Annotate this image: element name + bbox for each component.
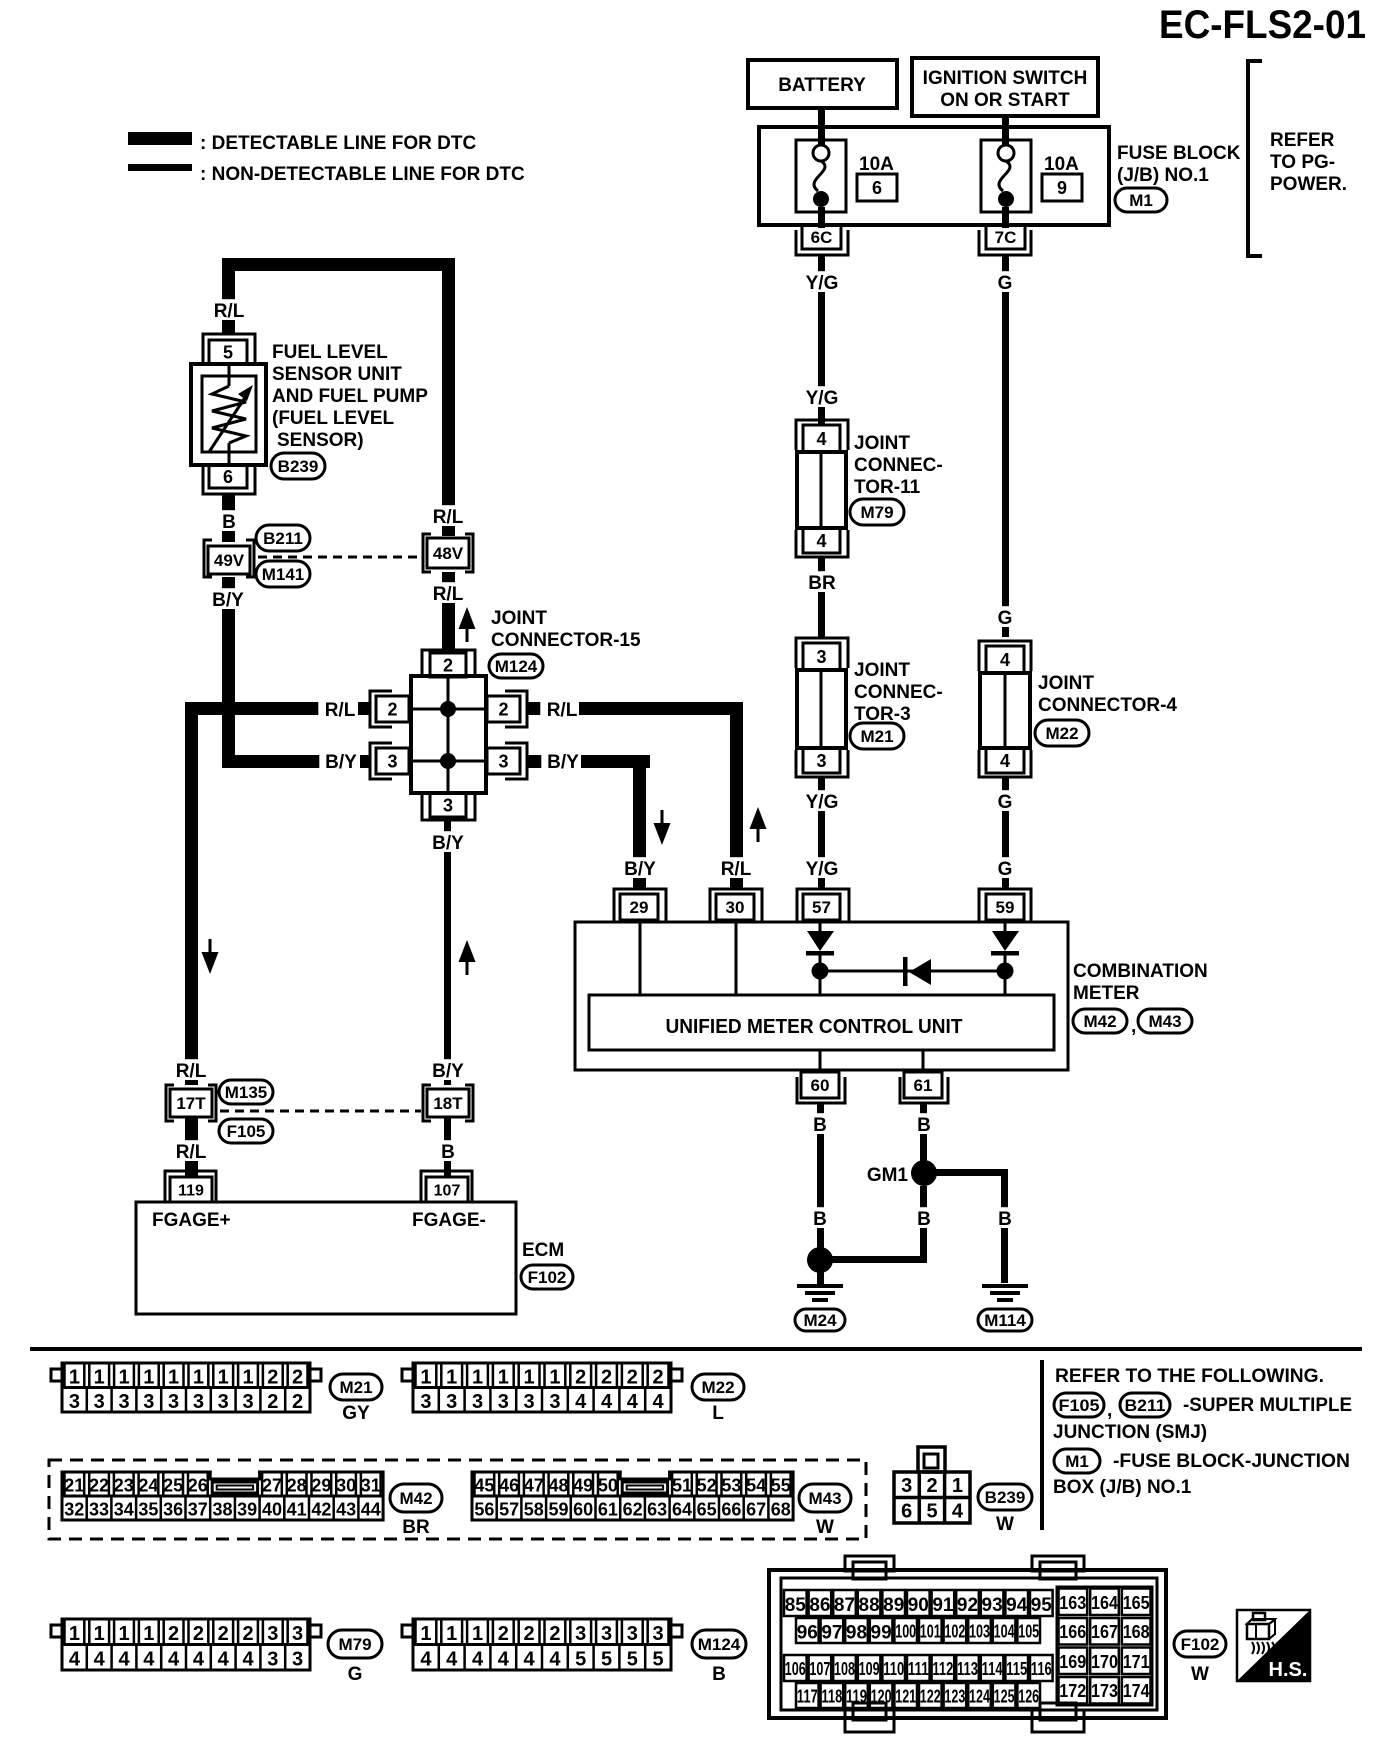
svg-text:IGNITION SWITCH: IGNITION SWITCH: [923, 68, 1088, 89]
connector M79 pinout table: [51, 1619, 321, 1671]
svg-text:57: 57: [499, 1500, 519, 1520]
svg-text:164: 164: [1091, 1593, 1118, 1613]
svg-text:41: 41: [287, 1500, 307, 1520]
svg-text:5: 5: [926, 1500, 937, 1522]
label B: [995, 1207, 1015, 1228]
svg-text:2: 2: [498, 700, 508, 720]
svg-text:33: 33: [89, 1500, 109, 1520]
svg-text:Y/G: Y/G: [806, 273, 839, 294]
terminal 60: [797, 1072, 845, 1103]
svg-text:2: 2: [218, 1623, 229, 1645]
svg-text:UNIFIED METER CONTROL UNIT: UNIFIED METER CONTROL UNIT: [666, 1016, 963, 1038]
svg-text:3: 3: [420, 1391, 431, 1413]
svg-text:3: 3: [218, 1391, 229, 1413]
svg-text:118: 118: [821, 1686, 842, 1706]
svg-text:R/L: R/L: [433, 584, 464, 605]
wire ignition to fuse 9: [1002, 116, 1009, 146]
svg-text:4: 4: [446, 1649, 458, 1671]
svg-text:R/L: R/L: [325, 700, 356, 721]
junction dot 59: [997, 963, 1014, 980]
svg-text:45: 45: [474, 1476, 494, 1496]
svg-text:2: 2: [926, 1475, 937, 1497]
svg-text:4: 4: [118, 1649, 130, 1671]
terminal 29: [614, 889, 666, 922]
svg-text:5: 5: [601, 1649, 612, 1671]
svg-text:M24: M24: [803, 1311, 837, 1330]
svg-text:M22: M22: [701, 1378, 734, 1397]
svg-text:114: 114: [982, 1659, 1003, 1679]
svg-text:2: 2: [498, 1623, 509, 1645]
right terminal 3: [487, 743, 527, 779]
F102 terminal rows 117-126: [796, 1683, 1040, 1708]
terminal 49V SMJ: [204, 540, 254, 577]
svg-text:R/L: R/L: [176, 1061, 207, 1082]
svg-text:3: 3: [242, 1391, 253, 1413]
svg-text:4: 4: [193, 1649, 205, 1671]
label R/L above terminal 30: [714, 857, 757, 878]
svg-text:53: 53: [721, 1476, 741, 1496]
svg-text:SENSOR UNIT: SENSOR UNIT: [272, 364, 402, 385]
svg-text:48V: 48V: [433, 544, 464, 563]
svg-text:B/Y: B/Y: [212, 590, 244, 611]
connector M24 oval: [795, 1309, 845, 1331]
H.S. hot-start logo: [1237, 1610, 1310, 1681]
svg-text:172: 172: [1059, 1681, 1086, 1701]
diode at 57: [806, 922, 834, 995]
ground node GM1: [911, 1160, 937, 1186]
svg-text:Y/G: Y/G: [806, 792, 839, 813]
svg-text:2: 2: [549, 1623, 560, 1645]
svg-text:42: 42: [311, 1500, 331, 1520]
connector B239 oval: [978, 1484, 1032, 1510]
svg-text:1: 1: [94, 1623, 105, 1645]
fuse 6 10A: [796, 140, 846, 212]
svg-text:96: 96: [797, 1622, 818, 1643]
terminal 59: [979, 889, 1031, 922]
svg-text:: DETECTABLE LINE FOR DTC: : DETECTABLE LINE FOR DTC: [200, 133, 476, 154]
svg-text:163: 163: [1059, 1593, 1086, 1613]
svg-text:1: 1: [446, 1623, 457, 1645]
svg-text:1: 1: [472, 1623, 483, 1645]
internal line from 29: [639, 922, 642, 995]
svg-text:6: 6: [223, 467, 233, 487]
terminal 107: [421, 1171, 472, 1202]
svg-text:167: 167: [1091, 1622, 1118, 1642]
svg-text:4: 4: [472, 1649, 484, 1671]
svg-text:4: 4: [549, 1649, 561, 1671]
wire R/L down to pin 5: [222, 258, 235, 334]
svg-text:7C: 7C: [995, 228, 1017, 247]
wire to left ground: [817, 1270, 824, 1284]
svg-text:99: 99: [871, 1622, 892, 1643]
svg-text:1: 1: [143, 1367, 154, 1389]
svg-text:30: 30: [726, 898, 745, 917]
svg-text:5: 5: [627, 1649, 638, 1671]
svg-text:4: 4: [143, 1649, 155, 1671]
terminal 57: [797, 889, 849, 922]
svg-text:106: 106: [785, 1659, 806, 1679]
wire R/L 17T to terminal 119: [185, 1117, 198, 1177]
svg-text:REFER: REFER: [1270, 130, 1335, 151]
svg-text:,: ,: [1131, 1016, 1136, 1037]
svg-text:M42: M42: [399, 1489, 432, 1508]
svg-text:GM1: GM1: [867, 1165, 909, 1186]
svg-text:3: 3: [443, 796, 453, 816]
F102 terminal rows 85-95: [784, 1590, 1053, 1616]
svg-text:10A: 10A: [859, 154, 894, 175]
svg-text:1: 1: [498, 1367, 509, 1389]
svg-text:FUEL LEVEL: FUEL LEVEL: [272, 342, 388, 363]
junction dot row 2: [440, 701, 456, 717]
svg-text:4: 4: [94, 1649, 106, 1671]
label B: [810, 1113, 830, 1134]
svg-text:89: 89: [883, 1595, 904, 1616]
svg-text:-FUSE BLOCK-JUNCTION: -FUSE BLOCK-JUNCTION: [1113, 1451, 1350, 1472]
svg-text:60: 60: [573, 1500, 593, 1520]
svg-text:1: 1: [420, 1367, 431, 1389]
dashed SMJ link 17T to 18T: [220, 1110, 421, 1113]
svg-text:1: 1: [69, 1367, 80, 1389]
svg-text:1: 1: [420, 1623, 431, 1645]
svg-text:4: 4: [816, 429, 826, 449]
wire B/Y joint connector-15 to 18T: [444, 820, 451, 1085]
wire R/L 48V to joint connector-15: [442, 572, 455, 650]
link line between diodes: [820, 970, 1005, 973]
svg-text:CONNECTOR-15: CONNECTOR-15: [491, 630, 641, 651]
connector F105 oval: [219, 1119, 273, 1143]
svg-text:4: 4: [242, 1649, 254, 1671]
connector M22 oval: [692, 1374, 744, 1400]
svg-text:3: 3: [816, 751, 826, 771]
wire B/Y 49V down: [222, 577, 235, 768]
svg-text:52: 52: [697, 1476, 717, 1496]
dashed SMJ link 49V to 48V: [258, 556, 421, 559]
svg-text:M22: M22: [1045, 724, 1078, 743]
svg-text:METER: METER: [1073, 983, 1140, 1004]
diode at 59: [991, 922, 1019, 995]
label B: [914, 1113, 934, 1134]
svg-text:ECM: ECM: [522, 1240, 564, 1261]
ground symbol M24: [797, 1284, 843, 1302]
svg-text:M141: M141: [262, 565, 305, 584]
svg-text:M43: M43: [1148, 1012, 1181, 1031]
svg-text:M21: M21: [860, 727, 893, 746]
label G: [995, 271, 1015, 292]
connector M1 oval: [1054, 1449, 1100, 1473]
svg-text:3: 3: [193, 1391, 204, 1413]
fuse 9 10A: [981, 140, 1031, 212]
svg-text:M21: M21: [339, 1378, 372, 1397]
fuel level sensor body B239: [191, 364, 266, 465]
svg-text:101: 101: [920, 1621, 941, 1641]
connector M42 oval: [390, 1484, 442, 1512]
svg-text:2: 2: [653, 1367, 664, 1389]
svg-text:4: 4: [627, 1391, 639, 1413]
joint connector-4 M22: [979, 641, 1031, 777]
svg-text:G: G: [998, 792, 1013, 813]
connector M21 oval: [330, 1374, 382, 1400]
svg-text:23: 23: [114, 1476, 134, 1496]
svg-text:61: 61: [598, 1500, 618, 1520]
svg-text:121: 121: [895, 1686, 916, 1706]
svg-text:G: G: [348, 1664, 363, 1685]
svg-text:POWER.: POWER.: [1270, 174, 1347, 195]
svg-text:ON OR START: ON OR START: [940, 90, 1070, 111]
svg-text:29: 29: [311, 1476, 331, 1496]
svg-text:FUSE BLOCK: FUSE BLOCK: [1117, 143, 1241, 164]
svg-text:Y/G: Y/G: [806, 859, 839, 880]
svg-text:BOX (J/B) NO.1: BOX (J/B) NO.1: [1053, 1477, 1192, 1498]
svg-text:117: 117: [797, 1686, 818, 1706]
wire GM1 down: [920, 1186, 927, 1260]
connector M135 oval: [219, 1080, 273, 1104]
svg-text:39: 39: [237, 1500, 257, 1520]
fuse 6 number box: [857, 174, 897, 201]
svg-text:JOINT: JOINT: [491, 608, 547, 629]
svg-text:22: 22: [89, 1476, 109, 1496]
internal line from 30: [735, 922, 738, 995]
connector M42 oval: [1073, 1009, 1127, 1033]
svg-text:3: 3: [118, 1391, 129, 1413]
svg-text:SENSOR): SENSOR): [277, 430, 364, 451]
svg-text:36: 36: [163, 1500, 183, 1520]
svg-text:65: 65: [697, 1500, 717, 1520]
svg-text:44: 44: [361, 1500, 381, 1520]
svg-text:108: 108: [834, 1659, 855, 1679]
wire B/Y left run to joint connector-15: [222, 755, 322, 768]
svg-text:2: 2: [193, 1623, 204, 1645]
svg-text:62: 62: [623, 1500, 643, 1520]
svg-text:1: 1: [118, 1623, 129, 1645]
svg-text:58: 58: [524, 1500, 544, 1520]
svg-text:1: 1: [549, 1367, 560, 1389]
svg-text:123: 123: [944, 1686, 965, 1706]
connector M114 oval: [978, 1309, 1032, 1331]
svg-text:R/L: R/L: [176, 1142, 207, 1163]
svg-text:43: 43: [336, 1500, 356, 1520]
svg-text:115: 115: [1006, 1659, 1027, 1679]
label Y/G: [800, 271, 843, 292]
svg-text:W: W: [816, 1517, 834, 1538]
connector F102 oval: [1174, 1631, 1226, 1657]
svg-text:(J/B) NO.1: (J/B) NO.1: [1117, 165, 1209, 186]
svg-text:5: 5: [575, 1649, 586, 1671]
vertical divider: [1040, 1360, 1044, 1530]
battery box: [748, 60, 897, 108]
svg-text:R/L: R/L: [721, 859, 752, 880]
connector B239 oval: [271, 453, 325, 479]
svg-text:165: 165: [1123, 1593, 1150, 1613]
svg-text:B211: B211: [1125, 1396, 1166, 1415]
svg-text:M42: M42: [1083, 1012, 1116, 1031]
joint connector-11 M79: [796, 420, 848, 557]
svg-text:4: 4: [498, 1649, 510, 1671]
svg-text:4: 4: [952, 1500, 964, 1522]
svg-text:3: 3: [816, 647, 826, 667]
label R/L above 17T: [169, 1059, 212, 1080]
svg-text:93: 93: [982, 1595, 1003, 1616]
svg-text:92: 92: [957, 1595, 978, 1616]
arrow down toward ECM: [202, 952, 219, 974]
svg-text:2: 2: [601, 1367, 612, 1389]
label R/L: [207, 299, 250, 320]
svg-text:48: 48: [548, 1476, 568, 1496]
svg-text:85: 85: [785, 1595, 807, 1616]
svg-text:F102: F102: [1181, 1635, 1220, 1654]
wire R/L down to terminal 30: [730, 702, 743, 889]
svg-text:60: 60: [811, 1076, 830, 1095]
connector M79 oval: [850, 499, 904, 525]
svg-text:B211: B211: [263, 529, 303, 548]
wire B/Y down to terminal 29: [633, 755, 646, 889]
svg-text:2: 2: [387, 700, 397, 720]
wire R/L down to 17T: [185, 702, 198, 1085]
wire battery to fuse 6: [818, 108, 825, 146]
svg-text:2: 2: [292, 1367, 303, 1389]
svg-text:M1: M1: [1065, 1452, 1089, 1471]
svg-text:-SUPER MULTIPLE: -SUPER MULTIPLE: [1183, 1395, 1352, 1416]
svg-text:2: 2: [575, 1367, 586, 1389]
svg-text:88: 88: [859, 1595, 880, 1616]
svg-text:B/Y: B/Y: [547, 752, 579, 773]
svg-text:AND FUEL PUMP: AND FUEL PUMP: [272, 386, 428, 407]
svg-text:B: B: [917, 1115, 931, 1136]
svg-text:100: 100: [895, 1621, 916, 1641]
wire R/L stub to left terminal 2: [358, 702, 370, 715]
svg-text:2: 2: [627, 1367, 638, 1389]
svg-text:40: 40: [262, 1500, 282, 1520]
svg-text:21: 21: [64, 1476, 84, 1496]
svg-text:54: 54: [746, 1476, 766, 1496]
arrow down into terminal 29: [654, 823, 671, 845]
svg-text:9: 9: [1057, 178, 1067, 198]
svg-text:46: 46: [499, 1476, 519, 1496]
svg-text:GY: GY: [342, 1403, 370, 1424]
svg-text:3: 3: [498, 1391, 509, 1413]
svg-text:B239: B239: [278, 457, 319, 476]
connector B211 oval: [256, 525, 310, 551]
junction dot 57: [812, 963, 829, 980]
junction dot row 3: [440, 753, 456, 769]
svg-text:1: 1: [168, 1367, 179, 1389]
svg-text:103: 103: [969, 1621, 990, 1641]
svg-text:M124: M124: [495, 657, 538, 676]
svg-text:124: 124: [969, 1686, 990, 1706]
svg-text:BR: BR: [808, 573, 836, 594]
svg-text:66: 66: [721, 1500, 741, 1520]
svg-text:5: 5: [223, 343, 233, 363]
svg-text:(FUEL LEVEL: (FUEL LEVEL: [272, 408, 394, 429]
label B/Y below joint connector-15: [426, 831, 469, 852]
svg-text:CONNEC-: CONNEC-: [854, 682, 943, 703]
svg-text:104: 104: [994, 1621, 1015, 1641]
svg-text:FGAGE+: FGAGE+: [152, 1210, 231, 1231]
connector M21 pinout table: [51, 1363, 321, 1413]
svg-text:173: 173: [1091, 1681, 1118, 1701]
svg-text:174: 174: [1123, 1681, 1150, 1701]
svg-text:3: 3: [524, 1391, 535, 1413]
svg-text:B: B: [998, 1209, 1012, 1230]
joint connector-15 body M124: [411, 676, 486, 793]
terminal 17T SMJ: [166, 1085, 216, 1121]
svg-text:86: 86: [809, 1595, 830, 1616]
ECM connector F102 housing: [769, 1556, 1166, 1732]
svg-text:1: 1: [446, 1367, 457, 1389]
svg-text:90: 90: [908, 1595, 929, 1616]
left terminal 3: [370, 743, 409, 779]
wire B/Y right run to terminal 29: [581, 755, 650, 768]
connector M43 oval: [799, 1484, 851, 1512]
svg-text:1: 1: [69, 1623, 80, 1645]
dashed meter connector group box: [49, 1460, 866, 1539]
svg-text:50: 50: [598, 1476, 618, 1496]
svg-text:3: 3: [292, 1623, 303, 1645]
connector B211 oval: [1120, 1393, 1170, 1417]
F102 terminal rows 106-116: [784, 1655, 1053, 1681]
combination meter box M42 M43: [575, 922, 1068, 1070]
svg-text:B/Y: B/Y: [432, 833, 464, 854]
svg-text:JOINT: JOINT: [854, 660, 910, 681]
svg-text:,: ,: [1107, 1400, 1112, 1421]
label B/Y: [541, 750, 584, 771]
svg-text:B/Y: B/Y: [325, 752, 357, 773]
svg-text:47: 47: [524, 1476, 544, 1496]
right terminal 2: [487, 691, 527, 727]
label B: [438, 1140, 458, 1161]
svg-text:M1: M1: [1129, 191, 1153, 210]
connector F102 oval: [521, 1265, 573, 1289]
svg-text:59: 59: [548, 1500, 568, 1520]
svg-text:G: G: [998, 859, 1013, 880]
wire G 7C to joint connector-4: [1002, 255, 1009, 637]
svg-text:59: 59: [996, 898, 1015, 917]
svg-text:110: 110: [883, 1659, 904, 1679]
svg-text:BATTERY: BATTERY: [778, 75, 866, 96]
svg-text:97: 97: [821, 1622, 842, 1643]
svg-text:91: 91: [932, 1595, 954, 1616]
arrow up toward joint connector-15: [459, 940, 476, 962]
svg-text:W: W: [1191, 1664, 1209, 1685]
svg-text:94: 94: [1006, 1595, 1028, 1616]
svg-text:109: 109: [859, 1659, 880, 1679]
terminal 30: [710, 889, 762, 922]
wire R/L down to 48V: [442, 258, 455, 536]
svg-text:F105: F105: [227, 1122, 266, 1141]
label B/Y below 49V: [206, 588, 249, 609]
svg-text:68: 68: [771, 1500, 791, 1520]
label B: [219, 510, 239, 531]
svg-text:35: 35: [138, 1500, 158, 1520]
label R/L: [540, 698, 583, 719]
svg-text:1: 1: [94, 1367, 105, 1389]
arrow up into terminal 30: [750, 807, 767, 829]
svg-text:116: 116: [1031, 1659, 1052, 1679]
joint connector-15 bottom terminal 3: [422, 793, 475, 820]
svg-text:4: 4: [420, 1649, 432, 1671]
terminal 48V SMJ: [423, 534, 473, 572]
svg-text:3: 3: [472, 1391, 483, 1413]
terminal 6: [203, 465, 255, 494]
svg-text:87: 87: [834, 1595, 855, 1616]
wire fuse 9 to 7C: [1002, 207, 1009, 228]
svg-text:1: 1: [218, 1367, 229, 1389]
separator line: [30, 1347, 1362, 1351]
svg-text:3: 3: [292, 1649, 303, 1671]
connector M124 pinout table: [402, 1619, 682, 1671]
svg-text:1: 1: [952, 1475, 963, 1497]
svg-text:3: 3: [69, 1391, 80, 1413]
svg-text:3: 3: [901, 1475, 912, 1497]
